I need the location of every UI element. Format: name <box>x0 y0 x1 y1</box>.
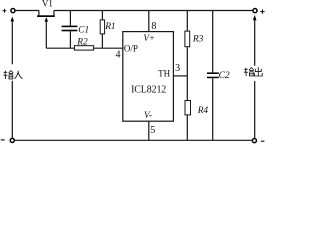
wire: top rail from + terminal to V1 emitter <box>15 10 39 12</box>
resistor R4 <box>185 101 191 115</box>
transistor V1 <box>37 11 55 49</box>
resistor R3 <box>185 31 190 47</box>
svg-text:R4: R4 <box>197 106 209 116</box>
op-amp U1: ICL8212 box <box>123 32 174 122</box>
svg-text:TH: TH <box>158 69 170 79</box>
label: + sign of output <box>260 9 264 13</box>
wire: R3 to R4 through TH node <box>186 47 188 101</box>
wire: input polarity arrow line <box>11 17 15 139</box>
输 <box>4 71 8 79</box>
node: + output terminal (top-right circle) <box>253 9 257 13</box>
wire: R4 to bottom rail <box>186 115 188 140</box>
svg-text:8: 8 <box>151 21 156 32</box>
svg-text:C2: C2 <box>219 71 230 81</box>
label: - sign of input <box>1 139 5 141</box>
svg-text:R1: R1 <box>104 22 115 32</box>
resistor R1 <box>100 11 104 49</box>
svg-text:3: 3 <box>175 63 180 74</box>
capacitor C1 <box>62 11 78 49</box>
出 <box>254 67 262 76</box>
wire: V1 base lead corner to R2 <box>46 47 74 49</box>
svg-text:4: 4 <box>116 49 121 60</box>
node: + input terminal (top-left circle) <box>11 9 15 13</box>
wire: top rail to R3 <box>186 11 188 32</box>
label: + sign of input <box>3 9 7 13</box>
入 <box>15 71 23 79</box>
node: - input terminal (bottom-left circle) <box>10 138 14 142</box>
wire: pin 3 TH to divider <box>173 75 187 77</box>
wire: bottom rail <box>14 139 252 141</box>
label: - sign of output <box>261 140 264 142</box>
wire: top rail from V1 collector to + output terminal <box>54 10 253 12</box>
svg-text:ICL8212: ICL8212 <box>131 85 166 96</box>
label: 输出 (output) hand-drawn glyphs <box>244 67 262 76</box>
node: - output terminal (bottom-right circle) <box>252 139 256 143</box>
svg-text:R3: R3 <box>192 34 204 44</box>
wire: pin 5 from IC V- to bottom rail <box>148 121 150 140</box>
wire: R2 to IC pin 4 <box>94 47 123 49</box>
label: 输入 (input) hand-drawn glyphs <box>4 71 23 80</box>
wire: output polarity arrow line <box>253 15 257 138</box>
输 <box>244 68 248 76</box>
svg-text:C1: C1 <box>78 25 89 35</box>
resistor R2 <box>74 46 93 50</box>
svg-text:O/P: O/P <box>124 43 138 53</box>
svg-text:5: 5 <box>150 125 155 136</box>
svg-text:V+: V+ <box>143 33 155 43</box>
svg-text:R2: R2 <box>76 37 88 47</box>
capacitor C2 <box>207 11 219 141</box>
wire: pin 8 from top rail to IC V+ <box>148 11 150 32</box>
svg-text:V1: V1 <box>42 0 53 9</box>
svg-text:V-: V- <box>144 110 152 120</box>
